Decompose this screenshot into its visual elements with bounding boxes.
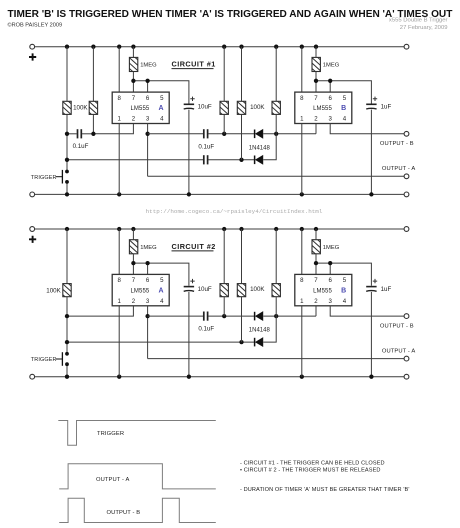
V+ right terminal circuit 1 <box>404 44 409 49</box>
svg-text:100K: 100K <box>250 286 265 293</box>
plus sign circuit 2 <box>29 236 36 243</box>
op-amp U1A LM555 body <box>112 92 169 123</box>
svg-text:1MEG: 1MEG <box>323 245 340 251</box>
svg-text:6: 6 <box>329 277 333 284</box>
waveform TRIGGER trace <box>58 421 216 446</box>
junction on V+ rail 5 circuit 2 <box>239 227 243 231</box>
svg-text:TRIGGER: TRIGGER <box>31 357 57 363</box>
junction on V+ rail 8 circuit 2 <box>314 227 318 231</box>
svg-text:6: 6 <box>329 95 333 102</box>
wire: 0.1uF to diode D1 circuit 1 <box>208 133 254 135</box>
plus sign circuit 1 <box>29 53 36 60</box>
op-amp U1B LM555 body <box>295 92 352 123</box>
OUTPUT A terminal circuit 2 <box>404 356 409 361</box>
junction on ground rail 1 circuit 2 <box>65 375 69 379</box>
junction on ground rail 4 circuit 1 <box>300 192 304 196</box>
capacitor 10uF timer A circuit 2 <box>184 279 195 291</box>
wire: B trigger node to pin 2 B circuit 1 <box>315 124 317 134</box>
junction pin 6 tie circuit 1 <box>145 79 149 83</box>
wire: ground rail circuit 2 <box>35 376 405 378</box>
wire: R3 leads circuit 1 <box>223 47 225 134</box>
junction pin 7 tie circuit 1 <box>131 79 135 83</box>
svg-text:10uF: 10uF <box>198 104 212 111</box>
svg-text:1uF: 1uF <box>381 104 392 111</box>
junction pin 7 B tie circuit 2 <box>314 261 318 265</box>
svg-text:OUTPUT - B: OUTPUT - B <box>107 510 141 516</box>
resistor 1MEG timer B circuit 2 <box>311 234 321 260</box>
resistor 100K trigger pull-up circuit 2 <box>62 278 72 304</box>
svg-text:http://home.cogeco.ca/~rpaisle: http://home.cogeco.ca/~rpaisley4/Circuit… <box>146 208 323 215</box>
waveform OUTPUT A trace <box>59 464 216 489</box>
resistor 1MEG timer B circuit 1 <box>311 51 321 77</box>
svg-text:100K: 100K <box>46 287 61 294</box>
svg-text:1N4148: 1N4148 <box>249 328 271 334</box>
wire: trigger line circuit 1 <box>67 159 255 161</box>
capacitor 0.1uF output coupling circuit 1 <box>204 129 208 138</box>
wire: pins 6/7 tie B to 1uF circuit 2 <box>316 263 371 286</box>
svg-text:1uF: 1uF <box>381 286 392 293</box>
wire: 1MEG A leads circuit 1 <box>132 47 134 92</box>
wire: OUTPUT A line circuit 1 <box>148 175 405 177</box>
capacitor 0.1uF trigger coupling <box>78 129 82 138</box>
wire: pins 6/7 tie to 10uF circuit 2 <box>133 263 189 286</box>
svg-text:7: 7 <box>132 277 136 284</box>
resistor 1MEG timer A circuit 2 <box>128 234 138 260</box>
wire: coupling line to 0.1uF circuit 2 <box>148 315 204 317</box>
junction on ground rail 5 circuit 1 <box>369 192 373 196</box>
wire: trigger column circuit 1 <box>66 47 68 195</box>
wire: pin 3 A down circuit 2 <box>147 306 149 359</box>
wire: OUTPUT B line circuit 1 <box>330 124 404 134</box>
svg-text:LM555: LM555 <box>313 288 332 294</box>
OUTPUT B terminal circuit 1 <box>404 131 409 136</box>
junction on V+ rail 6 circuit 2 <box>274 227 278 231</box>
ground terminal right circuit 2 <box>404 374 409 379</box>
wire: coupling line to 0.1uF circuit 1 <box>148 133 204 135</box>
svg-text:1MEG: 1MEG <box>323 63 340 69</box>
svg-text:TIMER 'B' IS TRIGGERED WHEN: TIMER 'B' IS TRIGGERED WHEN TIMER 'A' IS… <box>8 9 454 20</box>
wire: R4 leads circuit 1 <box>241 47 243 160</box>
wire: D1 anode to B trigger node circuit 1 <box>263 133 316 135</box>
svg-text:10uF: 10uF <box>198 286 212 293</box>
junction on ground rail 3 circuit 1 <box>187 192 191 196</box>
svg-text:- CIRCUIT #1 - THE TRIGGER CAN: - CIRCUIT #1 - THE TRIGGER CAN BE HELD C… <box>240 461 385 467</box>
wire: 0.1uF to diode D1 circuit 2 <box>208 315 254 317</box>
svg-text:A: A <box>158 288 163 295</box>
capacitor 1uF timer B circuit 1 <box>366 97 377 109</box>
svg-text:0.1uF: 0.1uF <box>198 326 214 333</box>
OUTPUT B terminal circuit 2 <box>404 314 409 319</box>
junction on V+ rail 7 circuit 2 <box>300 227 304 231</box>
wire: R2 bottom lead <box>92 114 94 133</box>
svg-text:2: 2 <box>132 116 136 123</box>
resistor 100K trigger pull-up circuit 1 <box>62 95 72 121</box>
junction on V+ rail 1 circuit 2 <box>65 227 69 231</box>
resistor 100K R4 circuit 2 <box>236 278 246 304</box>
op-amp U2A LM555 body <box>112 274 169 305</box>
wire: V+ rail circuit 1 <box>35 46 405 48</box>
svg-text:LM555: LM555 <box>130 288 149 294</box>
resistor 100K R3 circuit 2 <box>219 278 229 304</box>
junction on V+ rail 2 circuit 2 <box>117 227 121 231</box>
junction on V+ rail 7 circuit 1 <box>274 45 278 49</box>
svg-text:27 February, 2009: 27 February, 2009 <box>400 25 448 31</box>
svg-text:B: B <box>341 288 346 295</box>
junction on V+ rail 8 circuit 1 <box>300 45 304 49</box>
wire: R5 leads circuit 2 <box>275 229 277 316</box>
svg-text:OUTPUT - A: OUTPUT - A <box>96 477 129 483</box>
junction R4 on trigger line circuit 1 <box>239 158 243 162</box>
svg-text:TRIGGER: TRIGGER <box>31 175 57 181</box>
junction on V+ rail 2 circuit 1 <box>91 45 95 49</box>
svg-text:4: 4 <box>343 298 347 305</box>
svg-text:TRIGGER: TRIGGER <box>97 431 124 437</box>
wire: pin 8 B to rail circuit 1 <box>301 47 303 92</box>
svg-text:©ROB PAISLEY 2009: ©ROB PAISLEY 2009 <box>8 22 63 29</box>
junction pin 6 tie circuit 2 <box>145 261 149 265</box>
svg-text:B: B <box>341 105 346 112</box>
svg-text:LM555: LM555 <box>130 106 149 112</box>
wire: OUTPUT B line circuit 2 <box>330 306 404 316</box>
svg-text:100K: 100K <box>250 104 265 111</box>
junction pin 6 B tie circuit 2 <box>328 261 332 265</box>
wire: pin 1 A to ground circuit 1 <box>118 124 120 195</box>
wire: trigger node to pin 2 circuit 2 <box>67 306 133 316</box>
svg-text:OUTPUT - A: OUTPUT - A <box>382 166 415 172</box>
wire: R5 leads circuit 1 <box>275 47 277 134</box>
diode D2 1N4148 circuit 1 <box>255 155 263 164</box>
wire: OUTPUT A line circuit 2 <box>148 358 405 360</box>
underline CIRCUIT #1 <box>172 68 214 70</box>
svg-text:OUTPUT - A: OUTPUT - A <box>382 348 415 354</box>
ground terminal left circuit 1 <box>30 192 35 197</box>
svg-text:7: 7 <box>132 95 136 102</box>
capacitor 0.1uF timer B trigger circuit 1 <box>204 155 208 164</box>
junction trigger node / pin 2 line circuit 2 <box>65 314 69 318</box>
svg-text:100K: 100K <box>73 105 88 112</box>
resistor 1MEG timer A circuit 1 <box>128 51 138 77</box>
capacitor 0.1uF output coupling circuit 2 <box>204 312 208 321</box>
junction on V+ rail 5 circuit 1 <box>222 45 226 49</box>
wire: 1MEG B leads circuit 1 <box>315 47 317 92</box>
svg-text:CIRCUIT #2: CIRCUIT #2 <box>172 242 216 251</box>
wire: pin 8 B to rail circuit 2 <box>301 229 303 274</box>
junction on V+ rail 9 circuit 1 <box>314 45 318 49</box>
svg-text:4: 4 <box>343 116 347 123</box>
junction on ground rail 1 circuit 1 <box>65 192 69 196</box>
pushbutton TRIGGER circuit 1 <box>56 170 69 184</box>
wire: 10uF to ground circuit 1 <box>188 110 190 195</box>
V+ terminal circuit 2 <box>30 227 35 232</box>
svg-text:OUTPUT - B: OUTPUT - B <box>380 141 414 147</box>
wire: 10uF to ground circuit 2 <box>188 292 190 377</box>
junction pin 6 B tie circuit 1 <box>328 79 332 83</box>
resistor 100K R3 circuit 1 <box>219 95 229 121</box>
junction on V+ rail 4 circuit 1 <box>131 45 135 49</box>
junction on V+ rail 1 circuit 1 <box>65 45 69 49</box>
wire: pins 6/7 tie to 10uF circuit 1 <box>133 81 189 104</box>
svg-text:0.1uF: 0.1uF <box>198 143 214 150</box>
wire: R2 top lead <box>92 47 94 102</box>
capacitor 10uF timer A circuit 1 <box>184 97 195 109</box>
wire: D2 anode up to B trigger node circuit 1 <box>263 134 276 160</box>
svg-text:1MEG: 1MEG <box>140 63 157 69</box>
svg-text:3: 3 <box>329 116 333 123</box>
junction R3 node circuit 2 <box>222 314 226 318</box>
wire: D2 anode up to B trigger node circuit 2 <box>263 316 276 342</box>
junction pin 7 B tie circuit 1 <box>314 79 318 83</box>
resistor 100K R5 circuit 2 <box>271 278 281 304</box>
junction on ground rail 5 circuit 2 <box>369 375 373 379</box>
svg-text:0.1uF: 0.1uF <box>73 143 89 150</box>
svg-text:1N4148: 1N4148 <box>249 145 271 151</box>
wire: pin 8 A to rail circuit 1 <box>118 47 120 92</box>
resistor 100K R5 circuit 1 <box>271 95 281 121</box>
junction R4 on trigger line circuit 2 <box>239 340 243 344</box>
wire: trigger column circuit 2 <box>66 229 68 377</box>
capacitor 1uF timer B circuit 2 <box>366 279 377 291</box>
svg-text:x555 Double B Trigger: x555 Double B Trigger <box>389 17 448 23</box>
wire: 1uF to ground circuit 1 <box>370 110 372 195</box>
wire: pins 6/7 tie B to 1uF circuit 1 <box>316 81 371 104</box>
junction on ground rail 2 circuit 2 <box>117 375 121 379</box>
svg-text:CIRCUIT #1: CIRCUIT #1 <box>172 60 216 69</box>
wire: trigger node to cap <box>67 133 77 135</box>
junction trigger line start circuit 2 <box>65 340 69 344</box>
wire: R4 leads circuit 2 <box>241 229 243 342</box>
wire: D1 anode to B trigger node circuit 2 <box>263 315 316 317</box>
diode D1 1N4148 circuit 1 <box>255 129 263 138</box>
junction B trigger node circuit 1 <box>274 132 278 136</box>
wire: trigger line circuit 2 <box>67 341 255 343</box>
underline CIRCUIT #2 <box>172 250 214 252</box>
junction B trigger node circuit 2 <box>274 314 278 318</box>
waveform OUTPUT B trace <box>59 498 216 522</box>
ground terminal right circuit 1 <box>404 192 409 197</box>
V+ right terminal circuit 2 <box>404 227 409 232</box>
junction R3 node circuit 1 <box>222 132 226 136</box>
wire: V+ rail circuit 2 <box>35 228 405 230</box>
resistor 100K R4 circuit 1 <box>236 95 246 121</box>
svg-text:• CIRCUIT # 2 - THE TRIGGER MU: • CIRCUIT # 2 - THE TRIGGER MUST BE RELE… <box>240 468 381 474</box>
ground terminal left circuit 2 <box>30 374 35 379</box>
junction on ground rail 3 circuit 2 <box>187 375 191 379</box>
OUTPUT A terminal circuit 1 <box>404 174 409 179</box>
junction R2 / pin 2 line <box>91 132 95 136</box>
svg-text:8: 8 <box>118 95 122 102</box>
wire: pin 1 A to ground circuit 2 <box>118 306 120 377</box>
junction pin 7 tie circuit 2 <box>131 261 135 265</box>
svg-text:1: 1 <box>118 298 122 305</box>
svg-text:1: 1 <box>118 116 122 123</box>
wire: pin2 node to pin 2 <box>93 124 133 134</box>
junction on V+ rail 3 circuit 2 <box>131 227 135 231</box>
junction on V+ rail 3 circuit 1 <box>117 45 121 49</box>
wire: 1uF to ground circuit 2 <box>370 292 372 377</box>
svg-text:5: 5 <box>343 95 347 102</box>
junction on ground rail 4 circuit 2 <box>300 375 304 379</box>
svg-text:5: 5 <box>343 277 347 284</box>
diode D1 1N4148 circuit 2 <box>255 312 263 321</box>
svg-text:- DURATION OF TIMER 'A' MUST B: - DURATION OF TIMER 'A' MUST BE GREATER … <box>240 487 410 493</box>
wire: pin 1 B to ground circuit 2 <box>301 306 303 377</box>
junction on V+ rail 4 circuit 2 <box>222 227 226 231</box>
resistor 100K pin2 pull-up R2 <box>88 95 98 121</box>
op-amp U2B LM555 body <box>295 274 352 305</box>
wire: cap to pin 2 node <box>82 133 93 135</box>
junction on V+ rail 6 circuit 1 <box>239 45 243 49</box>
wire: R3 leads circuit 2 <box>223 229 225 316</box>
svg-text:3: 3 <box>329 298 333 305</box>
svg-text:OUTPUT - B: OUTPUT - B <box>380 324 414 330</box>
junction pin 3 A / coupling circuit 1 <box>145 132 149 136</box>
diode D2 1N4148 circuit 2 <box>255 338 263 347</box>
wire: ground rail circuit 1 <box>35 193 405 195</box>
wire: pin 3 A down circuit 1 <box>147 124 149 177</box>
junction pin 3 A / coupling circuit 2 <box>145 314 149 318</box>
svg-text:A: A <box>158 105 163 112</box>
junction on ground rail 2 circuit 1 <box>117 192 121 196</box>
svg-text:1MEG: 1MEG <box>140 245 157 251</box>
junction trigger node / cap <box>65 132 69 136</box>
V+ terminal circuit 1 <box>30 44 35 49</box>
wire: 1MEG A leads circuit 2 <box>132 229 134 274</box>
wire: pin 8 A to rail circuit 2 <box>118 229 120 274</box>
wire: B trigger node to pin 2 B circuit 2 <box>315 306 317 316</box>
svg-text:2: 2 <box>132 298 136 305</box>
svg-text:8: 8 <box>118 277 122 284</box>
svg-text:LM555: LM555 <box>313 106 332 112</box>
junction trigger line start circuit 1 <box>65 158 69 162</box>
wire: pin 1 B to ground circuit 1 <box>301 124 303 195</box>
wire: 1MEG B leads circuit 2 <box>315 229 317 274</box>
pushbutton TRIGGER circuit 2 <box>56 352 69 366</box>
